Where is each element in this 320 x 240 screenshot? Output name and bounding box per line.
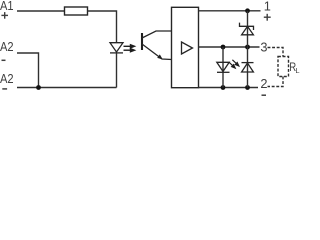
wire A2 upper with corner down xyxy=(17,53,39,88)
polarity plus at A1 xyxy=(1,12,8,19)
svg-text:A2: A2 xyxy=(0,71,14,86)
svg-text:1: 1 xyxy=(264,0,271,14)
phototransistor Q1 emitter arrowhead xyxy=(157,54,163,59)
svg-text:3: 3 xyxy=(260,39,267,54)
status LED D2 xyxy=(217,62,230,72)
status LED D2 emission arrows xyxy=(229,60,239,68)
junction dot middle wire at diode branch xyxy=(245,45,250,50)
wire output bottom to terminal 2 xyxy=(199,87,259,89)
svg-text:L: L xyxy=(295,66,299,75)
junction dot bottom wire at LED branch xyxy=(221,85,226,90)
suppressor Z-diode Z1 xyxy=(240,23,254,35)
wire status LED branch vertical xyxy=(222,47,224,88)
phototransistor Q1 collector xyxy=(142,31,172,38)
junction dot middle wire at LED branch xyxy=(221,45,226,50)
phototransistor Q1 emitter xyxy=(142,44,172,60)
svg-text:A1: A1 xyxy=(0,0,14,13)
svg-text:A2: A2 xyxy=(0,39,14,54)
freewheel diode D3 xyxy=(242,63,254,72)
junction dot A2 xyxy=(36,85,41,90)
polarity minus at A2 lower xyxy=(2,88,7,90)
dashed link load RL to terminal 2 xyxy=(268,77,284,87)
polarity minus at terminal 2 xyxy=(262,94,267,96)
amplifier box U1 xyxy=(172,7,199,87)
load resistor RL dashed box xyxy=(278,57,289,77)
phototransistor Q1 base bar xyxy=(141,33,143,50)
wire resistor to LED anode (corner at x=116.5) xyxy=(88,11,117,43)
wire freewheel diode branch vertical xyxy=(247,47,249,88)
wire output top to terminal 1 xyxy=(199,10,261,12)
polarity plus at terminal 1 xyxy=(264,14,271,21)
junction dot bottom wire at diode branch xyxy=(245,85,250,90)
dashed link terminal 3 to load RL xyxy=(268,48,284,57)
wire LED cathode down xyxy=(116,53,118,88)
buffer triangle inside U1 xyxy=(182,42,193,54)
svg-text:2: 2 xyxy=(260,76,267,91)
wire output middle to terminal 3 xyxy=(199,46,260,48)
LED D1 emission arrows toward phototransistor xyxy=(124,45,135,52)
resistor R1 xyxy=(65,7,88,15)
junction dot top wire xyxy=(245,8,250,13)
wire zener branch vertical xyxy=(247,11,249,47)
wire A2 lower bus xyxy=(17,87,117,89)
polarity minus at A2 upper xyxy=(2,59,6,61)
wire A1 to resistor xyxy=(17,10,65,12)
LED D1 optocoupler input diode xyxy=(110,43,123,53)
